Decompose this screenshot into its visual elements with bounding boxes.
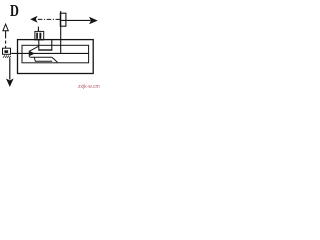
left arrow head (reciprocating motion, left)	[30, 16, 37, 23]
small bearing box on table top	[35, 31, 44, 40]
clamp vertical right	[51, 40, 53, 51]
bearing dark bar right	[39, 33, 41, 39]
dash-dot center line to wheel	[38, 18, 61, 20]
tool bottom line	[30, 56, 52, 58]
wheel vertical center line	[60, 11, 62, 53]
right arrow head	[89, 17, 98, 25]
label D	[10, 2, 19, 19]
up arrow stem dash-dot	[5, 31, 7, 48]
hatching under left component	[3, 55, 11, 58]
long center line through fixture	[11, 52, 88, 54]
inner box (fixture)	[22, 45, 89, 63]
grinding wheel box	[60, 13, 66, 26]
clamp vertical left	[38, 40, 40, 51]
red watermark	[78, 83, 100, 90]
left component inner dark bar	[4, 50, 8, 53]
left feed component box	[3, 48, 11, 54]
tool tip left edge	[28, 51, 30, 57]
down arrow stem	[9, 58, 11, 79]
tool top diagonal	[29, 46, 38, 51]
tool lower diagonal	[52, 57, 58, 62]
up arrow (open head) at left	[3, 24, 8, 31]
down arrow head (solid)	[6, 79, 14, 88]
solid line to right arrow	[61, 19, 91, 21]
bearing stem	[37, 27, 39, 32]
bearing dark bar left	[36, 33, 38, 39]
clamp bottom lines	[39, 49, 52, 51]
tool second bottom line	[34, 57, 52, 61]
tool carbide tip (black)	[30, 51, 35, 56]
outer box (table)	[18, 40, 94, 74]
